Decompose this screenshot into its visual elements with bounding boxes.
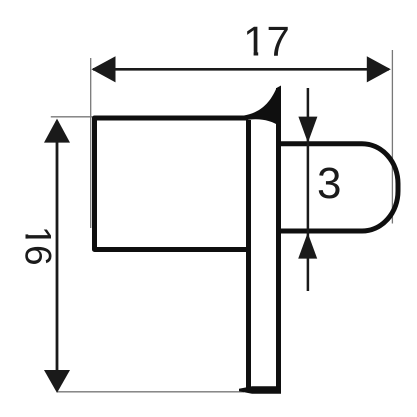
svg-text:3: 3	[317, 159, 341, 208]
svg-text:17: 17	[243, 17, 290, 64]
